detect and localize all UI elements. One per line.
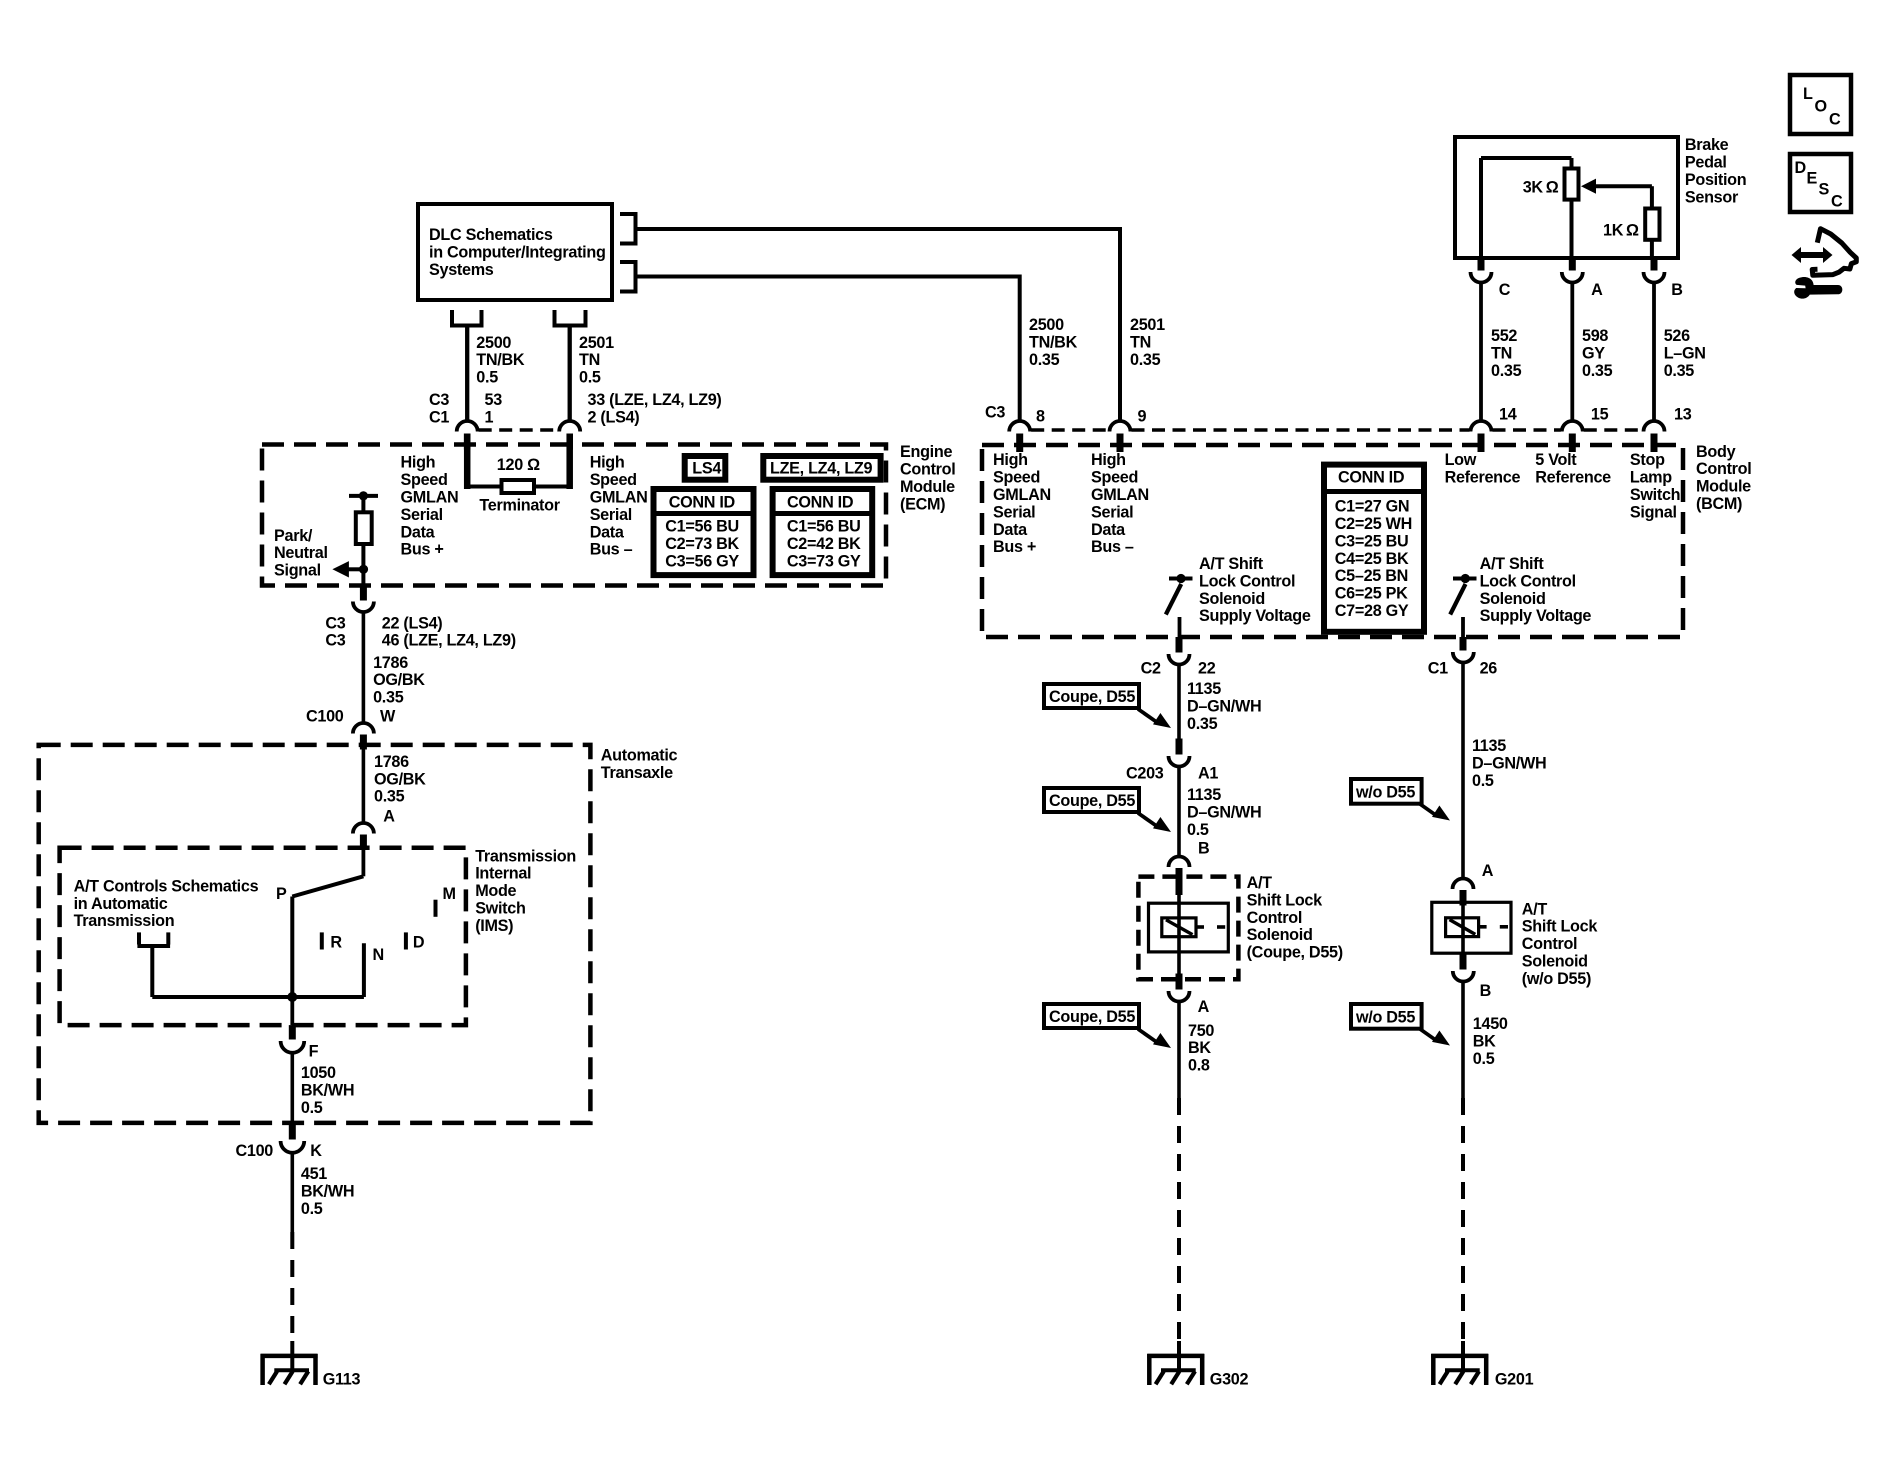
svg-text:F: F	[309, 1042, 319, 1060]
connector pin C100 K	[289, 1123, 296, 1140]
wire: 3K bottom lead	[1570, 200, 1574, 258]
wiper arrowhead (points left at 3K)	[1581, 179, 1596, 194]
svg-text:2501: 2501	[579, 334, 614, 352]
svg-text:A/T: A/T	[1522, 900, 1548, 918]
svg-text:8: 8	[1036, 408, 1045, 426]
box: DLC Schematics (Computer/Integrating Systems)	[418, 204, 612, 300]
svg-text:Transmission: Transmission	[475, 847, 576, 865]
svg-text:BK: BK	[1188, 1039, 1211, 1057]
solenoid coil link dashes (left)	[1196, 925, 1204, 929]
icon box: LOC	[1790, 75, 1851, 134]
svg-text:Supply Voltage: Supply Voltage	[1199, 607, 1311, 625]
svg-text:C3: C3	[325, 614, 345, 632]
svg-text:CONN ID: CONN ID	[1338, 469, 1405, 487]
svg-text:D–GN/WH: D–GN/WH	[1187, 803, 1261, 821]
svg-text:13: 13	[1674, 406, 1692, 424]
svg-text:Serial: Serial	[401, 506, 443, 524]
svg-text:C3: C3	[325, 632, 345, 650]
svg-text:Bus +: Bus +	[993, 538, 1036, 556]
connector cap C100 K	[281, 1141, 305, 1153]
svg-text:22: 22	[1198, 660, 1216, 678]
solenoid coil (left)	[1162, 918, 1196, 937]
wire: 1K bottom lead	[1650, 240, 1654, 258]
svg-text:A/T Shift: A/T Shift	[1199, 555, 1264, 573]
junction dot on tap	[359, 491, 368, 500]
junction dot park/neutral	[359, 565, 368, 574]
svg-text:46 (LZE, LZ4, LZ9): 46 (LZE, LZ4, LZ9)	[382, 632, 516, 650]
svg-text:0.35: 0.35	[1664, 362, 1695, 380]
connector cap A (left solenoid)	[1169, 991, 1190, 1002]
svg-text:CONN ID: CONN ID	[787, 494, 854, 512]
wire: wiper down to 1K	[1650, 186, 1654, 208]
connector cap C3 22/46	[353, 602, 374, 613]
svg-text:Systems: Systems	[429, 261, 494, 279]
label box: LS4	[685, 456, 726, 480]
svg-text:Speed: Speed	[993, 469, 1040, 487]
wire: dashed to G113	[290, 1232, 294, 1341]
svg-text:0.35: 0.35	[1491, 362, 1522, 380]
svg-text:High: High	[401, 454, 436, 472]
svg-text:P: P	[276, 885, 287, 903]
tick: position M	[434, 900, 438, 917]
wire through right solenoid	[1461, 906, 1465, 954]
switch blade (right)	[1450, 584, 1465, 615]
wire: P contact vertical	[290, 897, 294, 998]
svg-text:Transmission: Transmission	[74, 912, 175, 930]
dashed connector line pins 9-14	[1132, 428, 1470, 432]
svg-text:High: High	[590, 454, 625, 472]
svg-text:A: A	[1198, 998, 1210, 1016]
svg-text:C2: C2	[1141, 660, 1161, 678]
svg-text:G113: G113	[323, 1371, 361, 1389]
connector tab, DLC right upper	[620, 212, 636, 216]
bus wire: High Speed GMLAN - (thick)	[566, 434, 573, 490]
connector cap C1 26	[1453, 652, 1474, 663]
svg-text:C2=42 BK: C2=42 BK	[787, 535, 861, 553]
svg-text:Reference: Reference	[1535, 469, 1611, 487]
svg-text:G201: G201	[1495, 1371, 1534, 1389]
svg-text:D: D	[1795, 159, 1807, 177]
svg-text:0.5: 0.5	[301, 1200, 323, 1218]
svg-text:1450: 1450	[1473, 1015, 1508, 1033]
svg-text:1K Ω: 1K Ω	[1603, 222, 1639, 240]
svg-text:Solenoid: Solenoid	[1247, 926, 1313, 944]
svg-text:E: E	[1807, 170, 1818, 188]
wire: 451 BK/WH	[290, 1152, 294, 1233]
svg-text:C5–25 BN: C5–25 BN	[1335, 567, 1408, 585]
module box: Body Control Module (dashed)	[982, 445, 1683, 637]
svg-text:15: 15	[1591, 406, 1609, 424]
svg-text:Lock Control: Lock Control	[1199, 572, 1295, 590]
connector cap B (right solenoid)	[1453, 971, 1474, 982]
svg-text:Supply Voltage: Supply Voltage	[1480, 607, 1592, 625]
svg-text:D: D	[413, 934, 425, 952]
dashed connector line between DLC drops	[479, 428, 559, 432]
connector cap A (IMS)	[353, 823, 374, 834]
svg-text:W: W	[380, 708, 396, 726]
svg-text:C3=25 BU: C3=25 BU	[1335, 532, 1409, 550]
connector cap A (right solenoid)	[1453, 879, 1474, 889]
svg-text:Control: Control	[900, 461, 955, 479]
svg-text:(ECM): (ECM)	[900, 495, 945, 513]
svg-text:Data: Data	[401, 523, 436, 541]
connector cap C (sensor)	[1471, 272, 1492, 283]
svg-text:GMLAN: GMLAN	[1091, 486, 1149, 504]
svg-text:Shift Lock: Shift Lock	[1247, 891, 1324, 909]
callout arrow 3	[1138, 1029, 1158, 1043]
svg-text:26: 26	[1480, 660, 1498, 678]
solenoid body (left)	[1149, 903, 1229, 952]
box: Brake Pedal Position Sensor	[1455, 137, 1678, 258]
svg-text:L–GN: L–GN	[1664, 345, 1706, 363]
wire: sensor loop top	[1481, 156, 1572, 160]
callout arrow 5	[1420, 1029, 1437, 1041]
svg-text:C: C	[1499, 281, 1511, 299]
svg-text:A: A	[1482, 862, 1494, 880]
svg-text:Low: Low	[1445, 451, 1477, 469]
wire: IMS input drop	[361, 850, 365, 876]
svg-text:K: K	[310, 1142, 322, 1160]
svg-text:BK/WH: BK/WH	[301, 1082, 354, 1100]
wire: 2501 TN from DLC to BCM pin 9	[636, 229, 1121, 420]
svg-text:Data: Data	[993, 521, 1028, 539]
svg-text:Bus –: Bus –	[1091, 538, 1134, 556]
svg-text:Switch: Switch	[475, 900, 525, 918]
wire: resistor to junction	[361, 544, 365, 587]
svg-text:C: C	[1831, 193, 1843, 211]
connector cap C203 A1	[1169, 756, 1190, 767]
svg-text:Signal: Signal	[1630, 503, 1677, 521]
connector C3/C1 pin 53/1 (cap)	[457, 421, 478, 432]
tick: position R	[320, 932, 324, 949]
dashed connector line pins 8-9	[1031, 428, 1108, 432]
connector cap BCM pin 13	[1644, 421, 1665, 432]
svg-text:Solenoid: Solenoid	[1480, 590, 1546, 608]
svg-text:C203: C203	[1126, 764, 1164, 782]
svg-text:OG/BK: OG/BK	[373, 671, 425, 689]
connector tab, DLC bottom left	[450, 310, 454, 324]
wire: sensor loop left	[1479, 158, 1483, 258]
svg-text:451: 451	[301, 1165, 327, 1183]
connector cap BCM pin 15	[1562, 421, 1583, 432]
svg-text:Mode: Mode	[475, 882, 516, 900]
wire: 2500 TN/BK 0.5 (DLC drop left)	[465, 326, 469, 421]
bus wire: High Speed GMLAN + (thick)	[464, 434, 471, 490]
svg-text:Brake: Brake	[1685, 136, 1729, 154]
svg-text:0.35: 0.35	[1130, 351, 1161, 369]
svg-text:0.5: 0.5	[1187, 821, 1209, 839]
switch dot (left)	[1176, 574, 1185, 583]
connector pin B (right solenoid)	[1460, 953, 1467, 969]
svg-text:1135: 1135	[1187, 786, 1221, 804]
label box: LZE, LZ4, LZ9	[763, 456, 880, 480]
svg-text:TN: TN	[1130, 333, 1151, 351]
svg-text:TN: TN	[1491, 345, 1512, 363]
svg-text:Module: Module	[1696, 478, 1751, 496]
wire: G302 stub	[1177, 1341, 1181, 1370]
svg-text:DLC Schematics: DLC Schematics	[429, 226, 553, 244]
connector cap C2 22	[1169, 654, 1190, 665]
wire: dashed to G302	[1177, 1098, 1181, 1341]
resistor: 120 ohm terminator	[502, 480, 535, 493]
switch blade: IMS wiper to P	[292, 876, 363, 896]
callout: w/o D55 (1)	[1351, 779, 1422, 804]
svg-text:C3=73 GY: C3=73 GY	[787, 552, 861, 570]
wiper arrow line	[1593, 184, 1652, 188]
svg-text:Neutral: Neutral	[274, 544, 328, 562]
svg-text:High: High	[993, 451, 1028, 469]
svg-text:w/o D55: w/o D55	[1355, 1008, 1415, 1026]
svg-text:Internal: Internal	[475, 865, 531, 883]
icon: part outline	[1812, 229, 1856, 276]
wire: 552 TN 0.35	[1479, 283, 1483, 420]
switch: A/T shift lock supply (left) tick	[1169, 577, 1193, 581]
connector pin 13	[1651, 434, 1658, 453]
wire: switch to BCM edge (left)	[1178, 617, 1182, 638]
svg-text:OG/BK: OG/BK	[374, 770, 426, 788]
wire: G201 stub	[1461, 1341, 1465, 1370]
connector pin B (sensor)	[1651, 258, 1658, 271]
wire: 2501 TN 0.5 (DLC drop right)	[568, 326, 572, 421]
svg-text:TN/BK: TN/BK	[476, 351, 525, 369]
svg-text:C100: C100	[306, 708, 344, 726]
connector bracket (A/T controls ref)	[137, 932, 141, 944]
svg-text:w/o D55: w/o D55	[1355, 783, 1415, 801]
resistor: 1K ohm	[1645, 209, 1659, 240]
svg-text:Shift Lock: Shift Lock	[1522, 918, 1599, 936]
icon: wrench	[1794, 277, 1842, 299]
node: bus + tap bar	[349, 494, 378, 498]
wire: 1135 D-GN/WH 0.5 (left)	[1177, 766, 1181, 855]
connector pin A (left solenoid)	[1176, 974, 1183, 990]
svg-text:C3: C3	[985, 404, 1005, 422]
svg-text:0.35: 0.35	[1029, 351, 1060, 369]
svg-text:BK: BK	[1473, 1032, 1496, 1050]
connector pin B (left solenoid)	[1176, 868, 1183, 895]
switch blade (left)	[1166, 584, 1181, 615]
svg-text:1786: 1786	[373, 654, 408, 672]
svg-text:2500: 2500	[1029, 316, 1064, 334]
callout arrow 2	[1138, 813, 1158, 827]
svg-text:Coupe, D55: Coupe, D55	[1049, 688, 1135, 706]
svg-text:Solenoid: Solenoid	[1199, 590, 1265, 608]
svg-text:G302: G302	[1210, 1371, 1249, 1389]
svg-text:Coupe, D55: Coupe, D55	[1049, 1008, 1135, 1026]
svg-text:Switch: Switch	[1630, 486, 1680, 504]
connector pin C1 26	[1460, 637, 1467, 651]
switch: A/T shift lock supply (right) tick	[1453, 577, 1477, 581]
svg-text:Signal: Signal	[274, 562, 321, 580]
svg-text:GMLAN: GMLAN	[401, 489, 459, 507]
svg-text:(BCM): (BCM)	[1696, 495, 1742, 513]
svg-text:2501: 2501	[1130, 316, 1165, 334]
svg-text:Control: Control	[1522, 935, 1577, 953]
svg-text:22 (LS4): 22 (LS4)	[382, 614, 443, 632]
svg-text:in Automatic: in Automatic	[74, 895, 168, 913]
svg-text:Body: Body	[1696, 443, 1736, 461]
svg-text:LS4: LS4	[692, 460, 721, 478]
switch dot (right)	[1461, 574, 1470, 583]
connector cap, BCM pin 9	[1110, 421, 1131, 432]
svg-text:0.5: 0.5	[1473, 1050, 1495, 1068]
wire: 750 BK 0.8	[1177, 1001, 1181, 1098]
connector tab, DLC bottom right	[553, 310, 557, 324]
svg-text:C1=56 BU: C1=56 BU	[665, 517, 739, 535]
connector pin C2 22	[1176, 637, 1183, 653]
svg-text:Pedal: Pedal	[1685, 154, 1727, 172]
svg-text:0.35: 0.35	[1582, 362, 1613, 380]
svg-text:1135: 1135	[1472, 737, 1506, 755]
svg-text:LZE, LZ4, LZ9: LZE, LZ4, LZ9	[770, 460, 873, 478]
wire through left solenoid	[1177, 895, 1181, 974]
wire: 1050 BK/WH	[290, 1051, 294, 1123]
svg-text:598: 598	[1582, 327, 1608, 345]
svg-text:B: B	[1198, 839, 1209, 857]
svg-text:1135: 1135	[1187, 680, 1221, 698]
svg-text:CONN ID: CONN ID	[669, 494, 736, 512]
wire: park/neutral signal stub	[348, 567, 364, 571]
svg-text:9: 9	[1138, 408, 1147, 426]
connector cap, pin 33/2	[559, 421, 580, 432]
table: CONN ID (LZE, LZ4, LZ9)	[773, 489, 873, 575]
wire: IMS output	[290, 997, 294, 1025]
svg-text:Serial: Serial	[993, 503, 1035, 521]
svg-text:Serial: Serial	[590, 506, 632, 524]
connector cap BCM pin 14	[1471, 421, 1492, 432]
svg-text:Engine: Engine	[900, 443, 952, 461]
svg-text:1: 1	[485, 409, 494, 427]
svg-text:14: 14	[1499, 406, 1517, 424]
svg-text:2 (LS4): 2 (LS4)	[588, 409, 640, 427]
svg-text:Park/: Park/	[274, 527, 313, 545]
svg-text:C100: C100	[236, 1142, 274, 1160]
svg-text:Transaxle: Transaxle	[601, 764, 673, 782]
callout: Coupe, D55 (1)	[1044, 684, 1139, 708]
wire: 598 GY 0.35	[1570, 283, 1574, 420]
svg-text:526: 526	[1664, 327, 1690, 345]
svg-text:C1=56 BU: C1=56 BU	[787, 517, 861, 535]
connector pin C203 A1	[1176, 739, 1183, 755]
connector pin 9	[1117, 434, 1124, 453]
callout: Coupe, D55 (2)	[1044, 788, 1139, 812]
svg-text:0.5: 0.5	[301, 1099, 323, 1117]
wire: tap to resistor	[361, 496, 365, 512]
svg-text:Serial: Serial	[1091, 503, 1133, 521]
svg-text:A/T Shift: A/T Shift	[1480, 555, 1545, 573]
ground G302	[1147, 1354, 1204, 1359]
svg-text:Bus +: Bus +	[401, 541, 444, 559]
svg-text:Position: Position	[1685, 171, 1746, 189]
wire: IMS common bus	[152, 995, 364, 999]
icon box: DESC	[1790, 154, 1851, 212]
svg-text:TN/BK: TN/BK	[1029, 333, 1078, 351]
connector pin 14	[1478, 434, 1485, 453]
svg-text:Stop: Stop	[1630, 451, 1665, 469]
connector pin A (sensor)	[1569, 258, 1576, 271]
svg-text:C: C	[1829, 111, 1841, 129]
svg-text:TN: TN	[579, 351, 600, 369]
svg-text:R: R	[330, 934, 342, 952]
svg-text:Data: Data	[590, 523, 625, 541]
connector pin 33/2	[567, 434, 574, 450]
svg-text:(Coupe, D55): (Coupe, D55)	[1247, 944, 1343, 962]
svg-text:Automatic: Automatic	[601, 747, 678, 765]
module box: Engine Control Module (dashed)	[262, 445, 886, 586]
svg-text:Solenoid: Solenoid	[1522, 953, 1588, 971]
icon: double-headed arrow	[1792, 247, 1833, 263]
svg-text:C2=73 BK: C2=73 BK	[665, 535, 739, 553]
svg-text:552: 552	[1491, 327, 1517, 345]
svg-text:C1: C1	[1428, 660, 1448, 678]
svg-text:Data: Data	[1091, 521, 1126, 539]
svg-text:Bus –: Bus –	[590, 541, 633, 559]
wire: 1786 OG/BK lower	[362, 750, 366, 823]
wire: switch to BCM edge (right)	[1461, 617, 1465, 638]
svg-text:Speed: Speed	[401, 471, 448, 489]
svg-text:Control: Control	[1247, 909, 1302, 927]
wire: 1135 D-GN/WH 0.35	[1177, 664, 1181, 739]
svg-text:in Computer/Integrating: in Computer/Integrating	[429, 243, 606, 261]
svg-text:C1=27 GN: C1=27 GN	[1335, 498, 1410, 516]
svg-text:0.35: 0.35	[374, 788, 405, 806]
svg-text:Module: Module	[900, 478, 955, 496]
connector pin C (sensor)	[1478, 258, 1485, 271]
wire: G113 stub	[290, 1341, 294, 1370]
svg-text:C3: C3	[429, 391, 449, 409]
tick: position D	[404, 932, 408, 949]
svg-text:GY: GY	[1582, 345, 1605, 363]
svg-text:M: M	[443, 885, 456, 903]
svg-text:BK/WH: BK/WH	[301, 1183, 354, 1201]
svg-text:3K Ω: 3K Ω	[1523, 179, 1559, 197]
svg-text:0.5: 0.5	[476, 369, 498, 387]
junction dot: IMS common	[287, 992, 297, 1002]
solenoid coil link dashes (right)	[1479, 925, 1487, 929]
resistor: park/neutral pull-up	[356, 512, 372, 544]
svg-text:D–GN/WH: D–GN/WH	[1472, 754, 1546, 772]
wire to terminator right	[534, 485, 570, 489]
wire: 1786 OG/BK upper	[362, 611, 366, 723]
svg-text:Control: Control	[1696, 460, 1751, 478]
connector cap F	[281, 1041, 305, 1053]
wire: 3K top lead	[1570, 158, 1574, 169]
svg-text:A: A	[1591, 281, 1603, 299]
svg-text:120 Ω: 120 Ω	[497, 456, 540, 474]
ground G201	[1431, 1354, 1488, 1359]
svg-text:33 (LZE, LZ4, LZ9): 33 (LZE, LZ4, LZ9)	[588, 391, 722, 409]
svg-text:C3=56 GY: C3=56 GY	[665, 552, 739, 570]
connector pin A (right solenoid)	[1460, 890, 1467, 906]
svg-text:0.35: 0.35	[1187, 715, 1218, 733]
callout: Coupe, D55 (3)	[1044, 1004, 1139, 1028]
wire: N contact vertical	[362, 943, 366, 997]
solenoid body (right)	[1432, 902, 1511, 953]
svg-text:A/T: A/T	[1247, 874, 1273, 892]
svg-text:0.35: 0.35	[373, 689, 404, 707]
wire: 526 L-GN 0.35	[1652, 283, 1656, 420]
svg-text:1786: 1786	[374, 753, 409, 771]
table: CONN ID (BCM)	[1324, 465, 1424, 632]
svg-text:D–GN/WH: D–GN/WH	[1187, 697, 1261, 715]
connector pin F	[289, 1025, 296, 1039]
connector cap B (left solenoid)	[1169, 857, 1190, 868]
arrow: park/neutral signal (points left)	[332, 561, 349, 577]
wire to terminator left	[467, 485, 501, 489]
svg-text:A1: A1	[1198, 764, 1218, 782]
svg-text:N: N	[373, 946, 384, 964]
resistor: 3K ohm	[1565, 169, 1579, 200]
svg-text:GMLAN: GMLAN	[993, 486, 1051, 504]
